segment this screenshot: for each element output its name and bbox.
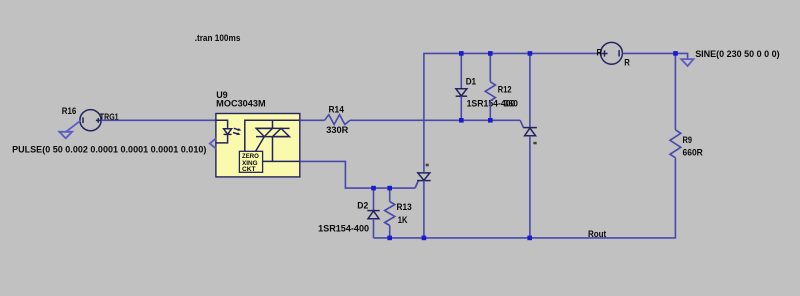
svg-text:R13: R13 (397, 202, 412, 212)
pin stub diamond (210, 138, 216, 148)
svg-text:D1: D1 (466, 77, 476, 87)
resistor R13 (389, 188, 391, 201)
svg-text:R9: R9 (683, 135, 693, 145)
wire gate diagonal into SCR1 (415, 181, 418, 188)
op-amp U9 opto body MOC3043M (216, 114, 300, 177)
svg-text:XING: XING (242, 161, 258, 167)
wire triac MT1 drop (272, 137, 274, 162)
wire TRG1 minus to ground (66, 121, 80, 132)
voltage source R (sine) (601, 42, 623, 64)
svg-text:1K: 1K (398, 215, 408, 225)
svg-text:ZERO: ZERO (242, 154, 259, 160)
junction dots (371, 51, 678, 240)
svg-text:MOC3043M: MOC3043M (216, 99, 265, 109)
wire opto internal bottom (263, 160, 300, 162)
voltage source TRG1 (80, 110, 101, 131)
wire source to junction (622, 52, 675, 54)
node R12 bottom (488, 118, 493, 123)
svg-text:.tran 100ms: .tran 100ms (195, 33, 241, 43)
node SCR2 top (528, 51, 533, 56)
triac left triangle (256, 128, 272, 136)
wire gate diagonal into SCR2 (520, 120, 523, 127)
resistor R9 (670, 130, 681, 158)
svg-text:R12: R12 (498, 85, 512, 95)
wire opto internal top (245, 120, 300, 151)
wire junction down to R9 (674, 53, 676, 129)
node D1 bottom (459, 118, 464, 123)
wire opto out to R14 (300, 119, 325, 121)
wire R14 to SCR2 gate (350, 119, 520, 121)
node source junction (673, 51, 678, 56)
resistor R14 (325, 115, 351, 125)
triac top rail (256, 127, 290, 129)
ground (right) (681, 59, 693, 66)
wire ground stub (676, 53, 688, 59)
svg-text:R: R (624, 58, 630, 68)
node D1 top (459, 51, 464, 56)
svg-text:SINE(0 230 50 0 0 0): SINE(0 230 50 0 0 0) (695, 49, 780, 59)
zero crossing circuit box (239, 151, 262, 172)
triac bottom rail (256, 136, 290, 138)
wire top rail (424, 53, 601, 171)
resistor R12 (489, 53, 491, 81)
wire LED anode (216, 120, 228, 128)
svg-text:R14: R14 (329, 105, 344, 115)
wire triac MT2 drop (272, 120, 274, 128)
wire triac gate (256, 137, 265, 152)
ground (left) (59, 132, 72, 139)
svg-text:R16: R16 (62, 106, 77, 116)
node D2 gate (371, 186, 376, 191)
triac right triangle (273, 128, 290, 136)
svg-text:360: 360 (504, 99, 518, 109)
node R13 gate (387, 186, 392, 191)
node R12 top (488, 51, 493, 56)
svg-text:PULSE(0 50 0.002 0.0001 0.0001: PULSE(0 50 0.002 0.0001 0.0001 0.0001 0.… (12, 144, 206, 154)
transistor Q1 SCR upper (x=424) (418, 173, 430, 180)
svg-text:330R: 330R (326, 125, 349, 135)
wire R9 down to bottom rail corner (374, 158, 676, 238)
node SCR1 bottom (422, 236, 427, 241)
svg-text:D2: D2 (357, 200, 368, 210)
node SCR2 bottom (527, 236, 532, 241)
svg-text:1SR154-400: 1SR154-400 (318, 223, 369, 233)
svg-text:Rout: Rout (588, 229, 606, 239)
svg-text:CKT: CKT (242, 167, 256, 173)
photon arrows (234, 128, 239, 130)
wire TRG1 to opto (101, 119, 216, 121)
diode D1 (460, 53, 462, 88)
node R13 bottom (387, 236, 392, 241)
diode LED (224, 129, 232, 135)
svg-text:R: R (597, 47, 603, 57)
wire opto bottom pin path (300, 161, 415, 188)
diode D2 (373, 188, 375, 211)
svg-text:660R: 660R (683, 147, 704, 157)
transistor Q2 SCR right (x=530) (529, 53, 531, 127)
wire LED cathode (216, 134, 228, 143)
